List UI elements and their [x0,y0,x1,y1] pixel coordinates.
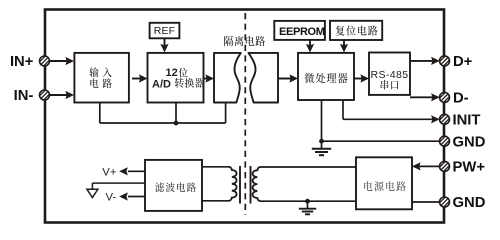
wire transformer to power box top [260,166,356,168]
svg-text:D-: D- [453,91,469,107]
svg-text:V+: V+ [102,166,117,178]
power circuit box [356,157,412,209]
enclosure outline [45,10,444,223]
svg-text:V-: V- [106,191,117,203]
analog common bus [100,122,226,124]
power ground symbol [307,201,309,208]
filter circuit label [155,182,164,192]
power circuit label [364,181,372,191]
wire MCU to RS-485 [354,78,367,80]
wire ground node to GND terminal [322,140,441,142]
transformer primary winding [229,167,237,201]
svg-text:IN+: IN+ [10,54,34,70]
terminal D+ [440,56,450,66]
RS-485 box [369,53,410,95]
REF box [150,23,180,39]
wire REF to ADC [164,38,166,49]
svg-text:A/D: A/D [152,78,171,90]
wire analog common to filter [92,182,145,184]
ADC box [148,53,204,103]
wire IN+ to input box [48,60,72,62]
input circuit label [89,67,98,77]
filter circuit box [145,160,202,211]
svg-text:INIT: INIT [453,112,481,128]
wire input to ADC [132,78,145,80]
terminal PW+ [440,161,450,171]
wire V- output [128,196,145,198]
svg-text:D+: D+ [453,54,473,70]
reset circuit label [336,26,345,36]
wire V+ output [128,170,145,172]
svg-text:GND: GND [453,134,486,150]
isolation label [224,36,233,46]
transformer core bars [239,166,241,204]
transformer secondary winding [253,167,261,201]
junction dot digital ground [319,139,324,144]
isolation right shape [249,53,279,103]
terminal INIT [440,114,450,124]
input circuit box [74,53,128,103]
isolation left shape [214,53,241,103]
wire MCU to digital ground [321,100,323,141]
wire reset to MCU [343,41,345,50]
terminal GND power [440,197,450,207]
svg-text:RS-485: RS-485 [370,69,408,81]
reset circuit box [330,21,382,40]
digital ground symbol [321,141,323,148]
wire transformer to power box bottom [260,200,356,202]
wire IN- to input box [48,94,72,96]
wire filter to transformer bottom [202,200,229,202]
svg-text:PW+: PW+ [453,160,486,176]
EEPROM box [274,21,325,40]
junction dot on bus [174,121,179,126]
junction dot power ground [305,199,310,204]
isolation barrier dashed line [244,13,246,215]
MCU label [304,73,314,83]
wire isolation to bus [225,103,227,124]
wire power box to GND terminal [412,201,440,203]
terminal IN+ [40,56,50,66]
wire ADC to bus [175,103,177,124]
wire filter to transformer top [202,166,229,168]
analog common triangle symbol [87,189,98,197]
svg-text:EEPROM: EEPROM [279,26,325,38]
wire RS-485 to D+ [410,60,434,62]
terminal IN- [40,90,50,100]
wire RS-485 to D- [410,96,434,98]
terminal D- [440,92,450,102]
wire MCU to INIT terminal [342,100,344,119]
wire PW+ to power box [414,165,440,167]
terminal GND digital [440,136,450,146]
wire input box to bus [99,103,101,124]
wire isolation to MCU [278,78,296,80]
svg-text:IN-: IN- [14,88,34,104]
svg-text:GND: GND [453,195,486,211]
svg-text:REF: REF [154,25,176,37]
MCU box [298,53,354,100]
wire EEPROM to MCU [309,41,311,50]
wire ADC to isolation [204,78,213,80]
